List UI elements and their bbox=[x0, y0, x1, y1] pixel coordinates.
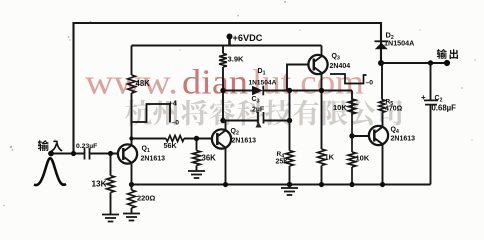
Q1 collector pulse waveform annotation bbox=[133, 104, 171, 123]
svg-text:1N1504A: 1N1504A bbox=[249, 80, 277, 87]
svg-text:+4: +4 bbox=[169, 99, 178, 108]
svg-text:2N1613: 2N1613 bbox=[141, 156, 166, 163]
output label (CJK paths) bbox=[437, 49, 447, 59]
node: output terminal bbox=[444, 60, 450, 66]
resistor 10K (lower) bbox=[348, 152, 356, 167]
svg-text:13K: 13K bbox=[92, 180, 107, 189]
node: rail junctions bbox=[129, 182, 134, 187]
resistor 48K bbox=[128, 75, 136, 93]
node: 36K junction bbox=[194, 136, 199, 141]
node: output/R5/D2 junction bbox=[378, 60, 384, 66]
node: feedback/input junction bbox=[71, 151, 76, 156]
capacitor 0.23uF coupling bbox=[85, 148, 90, 160]
svg-text:0.23µF: 0.23µF bbox=[76, 143, 97, 150]
svg-text:1N1504A: 1N1504A bbox=[384, 39, 414, 48]
svg-text:48K: 48K bbox=[136, 79, 151, 88]
wire: Q1 collector up / emitter down bbox=[131, 139, 133, 185]
node: 13K junction bbox=[108, 151, 113, 156]
node: D1 wire left junction bbox=[220, 88, 225, 93]
wire: output line bbox=[381, 62, 447, 64]
input label (CJK paths) bbox=[38, 140, 49, 151]
resistor R5 470ohm bbox=[379, 100, 385, 113]
+6VDC supply rail bbox=[132, 44, 322, 46]
wire: D1 row bbox=[223, 91, 352, 100]
svg-text:+6VDC: +6VDC bbox=[233, 33, 263, 43]
input bell waveform bbox=[34, 158, 66, 185]
diode D1 1N1504A bbox=[252, 86, 263, 96]
ground (36K) bbox=[188, 171, 205, 178]
wire: C2 column bbox=[430, 63, 432, 185]
transistor Q1 2N1613 bbox=[118, 144, 137, 163]
wire: C4 row bbox=[223, 120, 290, 122]
ground (main rail) bbox=[289, 185, 291, 188]
node: C2 junction bbox=[428, 60, 433, 65]
Q3 collector pulse waveform annotation bbox=[330, 74, 367, 84]
svg-text:3.9K: 3.9K bbox=[228, 55, 245, 64]
svg-text:56K: 56K bbox=[164, 141, 178, 150]
transistor Q3 2N404 (PNP) bbox=[308, 55, 327, 74]
svg-text:2N404: 2N404 bbox=[330, 63, 351, 70]
resistor R4 25K bbox=[286, 151, 294, 167]
resistor 3.9K bbox=[219, 54, 227, 68]
capacitor C2 0.68uF output bbox=[424, 100, 438, 104]
wire: top feedback loop (left vertical, top horizontal, right vertical to output node) bbox=[74, 23, 382, 154]
wire: 48K column from +6V rail bbox=[131, 46, 133, 139]
svg-text:2N1613: 2N1613 bbox=[391, 136, 416, 143]
resistor 56K bbox=[166, 136, 184, 142]
svg-text:2N1613: 2N1613 bbox=[232, 138, 257, 145]
wire: Q2 emitter down bbox=[225, 148, 227, 185]
wire: input line bbox=[51, 153, 118, 155]
transistor Q2 2N1613 bbox=[212, 129, 231, 148]
svg-text:–0: –0 bbox=[366, 80, 374, 87]
wire: Q2 collector column w/ 3.9K bbox=[223, 46, 226, 131]
wire: Q4 collector column w/ R5 bbox=[381, 63, 384, 185]
svg-text:470Ω: 470Ω bbox=[385, 106, 403, 113]
wire: Q3 base column bbox=[287, 65, 308, 185]
svg-text:25K: 25K bbox=[276, 159, 289, 166]
svg-text:+: + bbox=[421, 93, 426, 102]
svg-text:–0: –0 bbox=[172, 120, 180, 127]
resistor 13K bbox=[107, 176, 115, 193]
svg-text:10K: 10K bbox=[356, 154, 370, 163]
wire: to Q4 base bbox=[352, 135, 369, 137]
wire: 13K branch down bbox=[110, 154, 112, 215]
node: C4 wire left junction bbox=[220, 118, 225, 123]
bottom emitter/ground rail bbox=[132, 184, 431, 186]
wire: divider column to Q4 base bbox=[351, 99, 353, 185]
svg-text:10K: 10K bbox=[333, 103, 347, 112]
transistor Q4 2N1613 bbox=[369, 126, 388, 145]
wire: 36K branch bbox=[196, 139, 198, 171]
node: Q4 base junction bbox=[349, 133, 354, 138]
node: Q1 collector junction bbox=[129, 136, 133, 140]
svg-text:dian: dian bbox=[182, 63, 248, 102]
diode D2 1N1504 (feedback) bbox=[375, 43, 388, 50]
svg-text:1K: 1K bbox=[325, 153, 335, 162]
wire: Q3 emitter to rail corner bbox=[321, 46, 323, 56]
svg-text:36K: 36K bbox=[202, 154, 217, 163]
node: D1/Q3-base column junction bbox=[287, 88, 292, 93]
svg-text:220Ω: 220Ω bbox=[137, 194, 155, 203]
resistor 1K bbox=[318, 149, 326, 166]
node: Q3 collector junction bbox=[319, 88, 324, 93]
svg-text:.2µF: .2µF bbox=[250, 107, 265, 114]
gray company watermark bbox=[125, 100, 152, 126]
ground (220ohm) bbox=[123, 214, 140, 221]
wire: base coupling Q1->Q2 with 56K bbox=[132, 138, 212, 140]
node: input terminal bbox=[48, 151, 54, 157]
resistor 36K bbox=[193, 151, 201, 166]
ground (13K) bbox=[102, 215, 119, 222]
wire: Q3 collector column w/ 1K bbox=[321, 73, 323, 184]
node: C4/R4 junction bbox=[287, 118, 292, 123]
resistor 220ohm (shared emitter) bbox=[131, 185, 133, 191]
resistor 10K (upper) bbox=[348, 99, 356, 114]
svg-text:0.68µF: 0.68µF bbox=[432, 104, 457, 113]
scan specks bbox=[10, 146, 12, 148]
capacitor C4 0.2uF speed-up bbox=[258, 112, 264, 124]
